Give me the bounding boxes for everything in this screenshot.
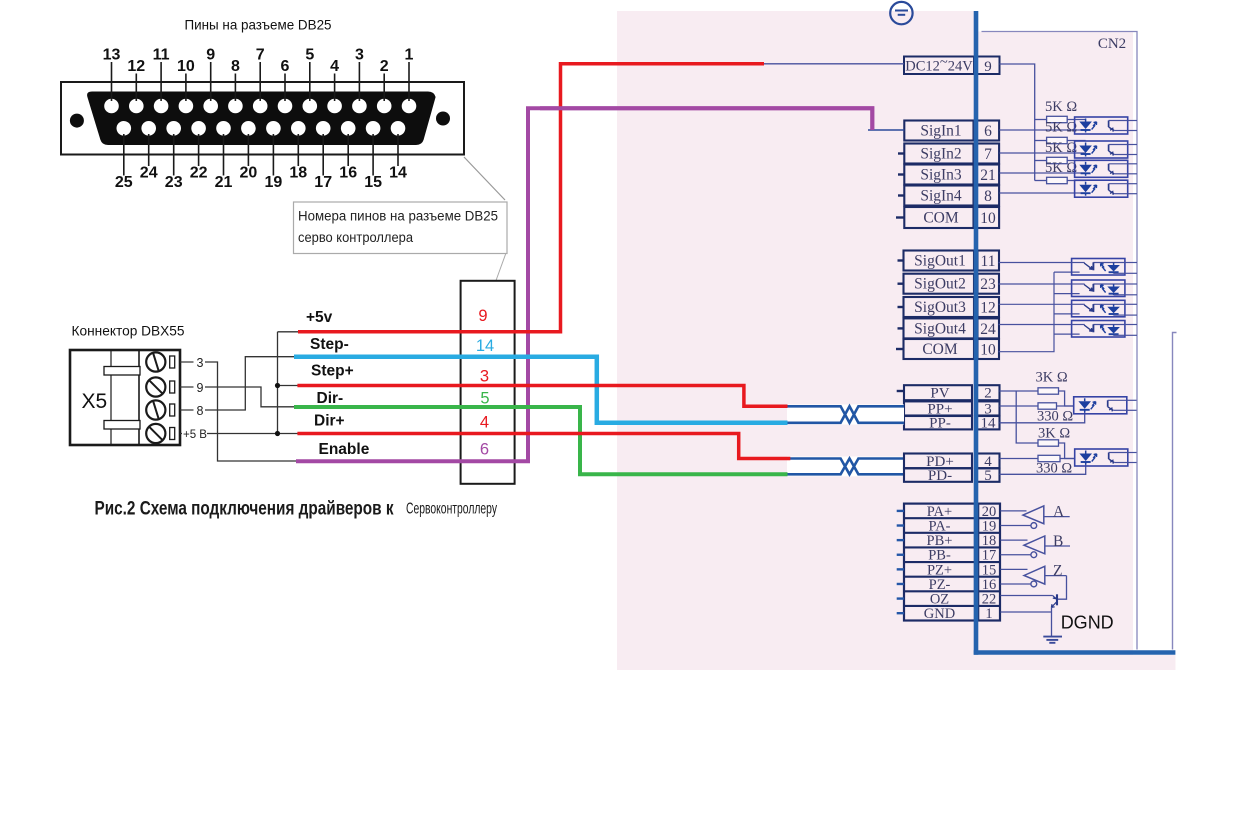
svg-text:14: 14: [389, 165, 407, 182]
svg-text:8: 8: [984, 188, 992, 205]
svg-text:SigOut1: SigOut1: [914, 253, 966, 270]
svg-text:1: 1: [405, 47, 414, 64]
svg-text:COM: COM: [922, 341, 958, 358]
svg-text:19: 19: [265, 174, 283, 191]
svg-text:GND: GND: [924, 606, 955, 622]
svg-text:PB+: PB+: [927, 533, 953, 549]
svg-text:Z: Z: [1053, 563, 1062, 580]
svg-text:4: 4: [480, 414, 489, 432]
svg-text:COM: COM: [923, 210, 959, 227]
svg-text:18: 18: [982, 533, 997, 549]
svg-text:15: 15: [364, 174, 382, 191]
svg-text:Enable: Enable: [319, 441, 370, 458]
svg-text:17: 17: [982, 548, 997, 564]
svg-text:330 Ω: 330 Ω: [1037, 409, 1073, 425]
svg-text:8: 8: [197, 404, 204, 418]
svg-text:9: 9: [197, 381, 204, 395]
svg-text:12: 12: [980, 300, 996, 317]
svg-text:SigOut2: SigOut2: [914, 276, 966, 293]
svg-text:19: 19: [982, 519, 997, 535]
svg-text:11: 11: [981, 253, 996, 270]
svg-text:5K Ω: 5K Ω: [1045, 120, 1077, 136]
svg-text:6: 6: [984, 123, 992, 140]
svg-text:OZ: OZ: [930, 592, 949, 608]
svg-text:5K Ω: 5K Ω: [1045, 160, 1077, 176]
svg-text:PA+: PA+: [927, 504, 952, 520]
svg-text:10: 10: [980, 210, 996, 227]
svg-text:A: A: [1053, 504, 1065, 521]
svg-text:4: 4: [330, 58, 339, 75]
svg-text:24: 24: [980, 321, 996, 338]
svg-text:21: 21: [980, 167, 996, 184]
svg-text:14: 14: [981, 416, 997, 432]
svg-text:PZ+: PZ+: [927, 562, 952, 578]
svg-text:9: 9: [478, 307, 487, 325]
svg-text:3: 3: [197, 356, 204, 370]
svg-text:16: 16: [982, 577, 997, 593]
svg-text:2: 2: [984, 386, 992, 402]
svg-text:21: 21: [215, 174, 233, 191]
svg-text:SigOut4: SigOut4: [914, 320, 966, 337]
svg-text:10: 10: [980, 342, 996, 359]
svg-text:+5 В: +5 В: [183, 429, 207, 441]
svg-text:23: 23: [165, 174, 183, 191]
svg-text:PP-: PP-: [929, 416, 951, 432]
svg-text:6: 6: [480, 441, 489, 459]
svg-text:2: 2: [380, 58, 389, 75]
svg-text:14: 14: [476, 337, 494, 355]
svg-text:13: 13: [103, 47, 121, 64]
svg-text:5: 5: [305, 47, 314, 64]
svg-text:22: 22: [190, 165, 208, 182]
svg-text:5K Ω: 5K Ω: [1045, 99, 1077, 115]
svg-text:Dir-: Dir-: [317, 390, 344, 407]
svg-text:Пины на разъеме DB25: Пины на разъеме DB25: [185, 17, 332, 33]
svg-text:9: 9: [984, 59, 992, 75]
svg-text:6: 6: [281, 58, 290, 75]
svg-text:5: 5: [480, 390, 489, 408]
svg-text:25: 25: [115, 174, 133, 191]
svg-text:3K Ω: 3K Ω: [1038, 426, 1070, 442]
svg-text:SigOut3: SigOut3: [914, 299, 966, 316]
svg-text:PB-: PB-: [928, 548, 951, 564]
svg-text:серво контроллера: серво контроллера: [298, 230, 413, 245]
svg-text:15: 15: [982, 562, 997, 578]
svg-text:CN2: CN2: [1098, 36, 1126, 52]
svg-text:Рис.2 Схема подключения драйве: Рис.2 Схема подключения драйверов к: [95, 499, 394, 520]
svg-text:SigIn2: SigIn2: [920, 146, 961, 163]
svg-text:SigIn3: SigIn3: [920, 167, 962, 184]
svg-text:SigIn4: SigIn4: [920, 188, 962, 205]
svg-text:20: 20: [240, 165, 258, 182]
svg-text:SigIn1: SigIn1: [920, 123, 961, 140]
svg-text:18: 18: [289, 165, 307, 182]
svg-text:16: 16: [339, 165, 357, 182]
svg-text:X5: X5: [82, 390, 108, 413]
svg-text:Коннектор DBX55: Коннектор DBX55: [72, 323, 185, 339]
svg-text:PV: PV: [930, 386, 949, 402]
svg-text:PD-: PD-: [928, 468, 952, 484]
svg-text:24: 24: [140, 165, 158, 182]
svg-text:10: 10: [177, 58, 195, 75]
svg-text:Step+: Step+: [311, 363, 354, 380]
svg-text:5K Ω: 5K Ω: [1045, 140, 1077, 156]
svg-text:22: 22: [982, 592, 997, 608]
svg-text:7: 7: [256, 47, 265, 64]
svg-text:23: 23: [980, 276, 996, 293]
svg-text:Сервоконтроллеру: Сервоконтроллеру: [406, 501, 497, 518]
svg-text:7: 7: [984, 146, 992, 163]
svg-text:5: 5: [984, 468, 992, 484]
svg-text:PA-: PA-: [928, 519, 950, 535]
svg-text:PZ-: PZ-: [929, 577, 951, 593]
svg-text:12: 12: [127, 58, 145, 75]
svg-text:1: 1: [985, 606, 992, 622]
svg-text:17: 17: [314, 174, 332, 191]
svg-text:B: B: [1053, 533, 1063, 550]
svg-text:Номера пинов на разъеме DB25: Номера пинов на разъеме DB25: [298, 209, 498, 224]
svg-text:+5v: +5v: [306, 309, 333, 326]
svg-text:8: 8: [231, 58, 240, 75]
svg-text:DGND: DGND: [1061, 613, 1114, 633]
svg-text:Dir+: Dir+: [314, 413, 345, 430]
svg-text:20: 20: [982, 504, 997, 520]
svg-text:3K Ω: 3K Ω: [1036, 370, 1068, 386]
svg-text:3: 3: [480, 368, 489, 386]
svg-text:3: 3: [355, 47, 364, 64]
svg-text:11: 11: [153, 47, 170, 64]
svg-text:Step-: Step-: [310, 336, 349, 353]
svg-text:9: 9: [206, 47, 215, 64]
